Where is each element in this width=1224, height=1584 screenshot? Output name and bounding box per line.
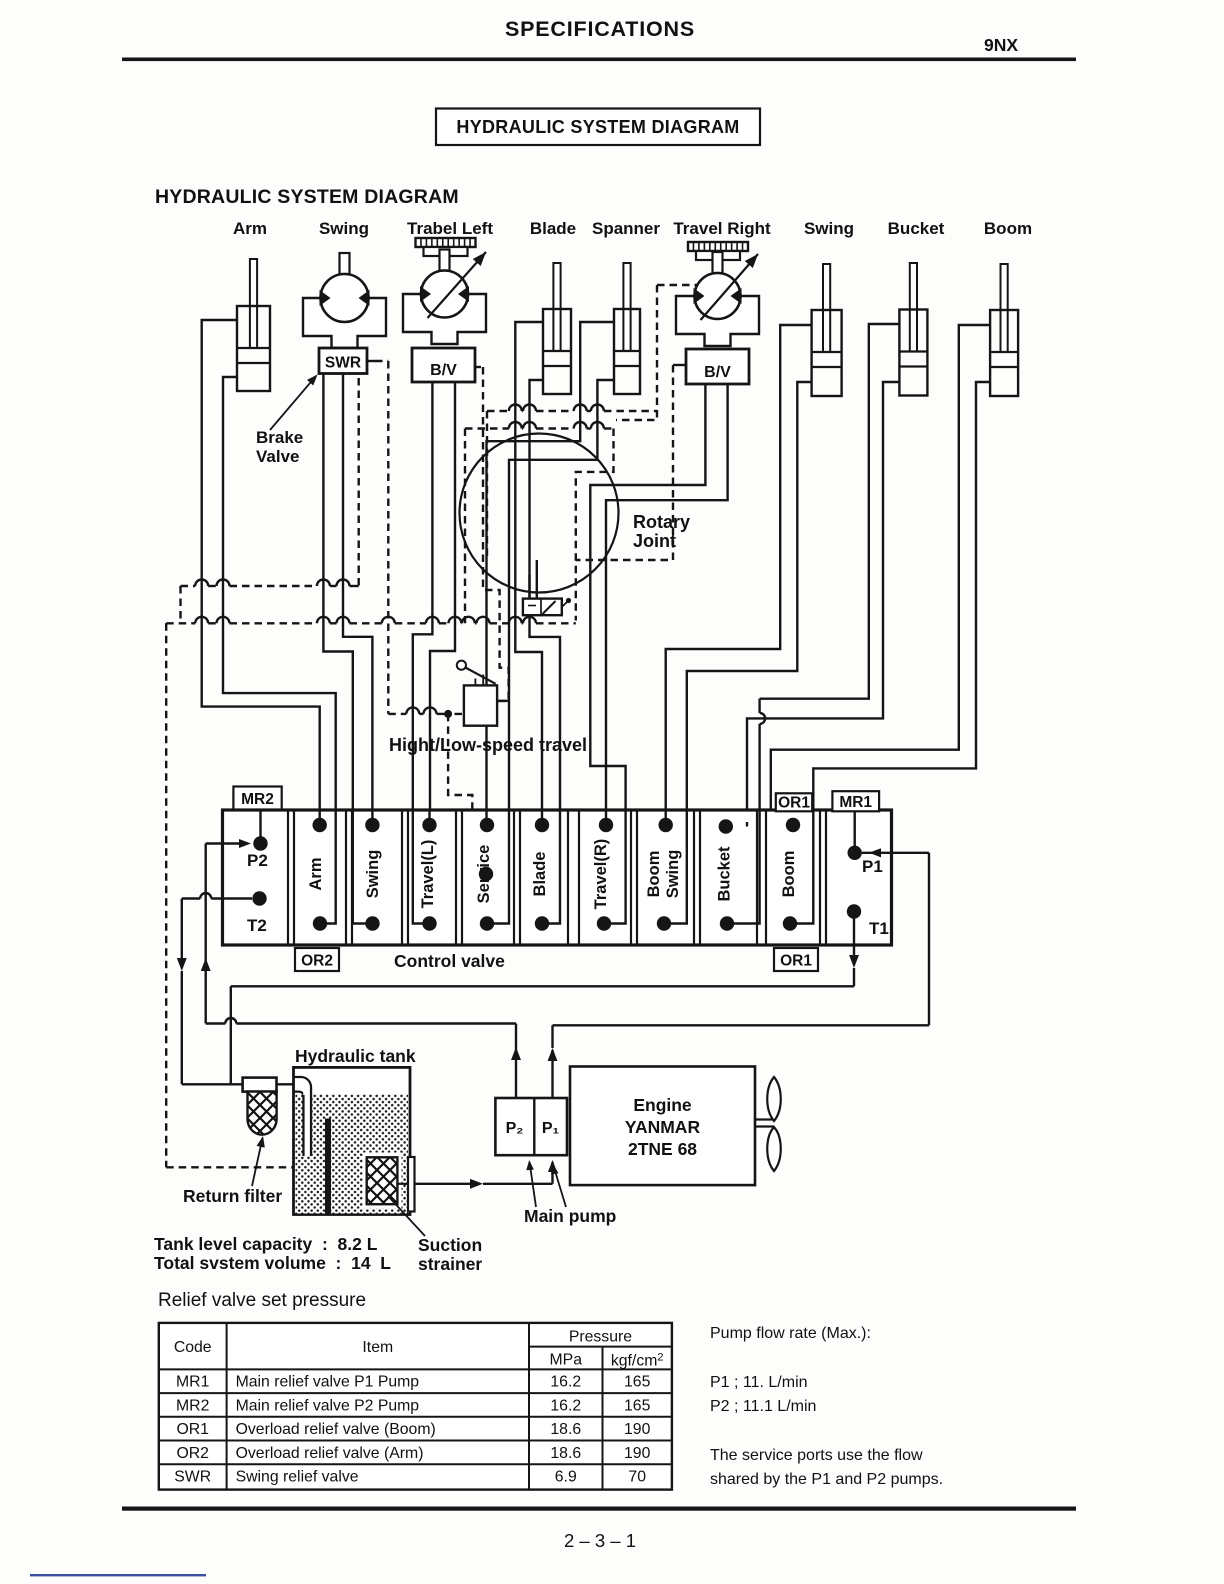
svg-text:Boom: Boom <box>645 851 663 898</box>
wire high/low valve right stub <box>497 700 509 702</box>
label tag OR1 bottom <box>774 948 818 971</box>
svg-text:Spanner: Spanner <box>592 219 660 238</box>
valve travel speed selector in rotary joint <box>523 599 562 616</box>
port service mid dot <box>479 867 493 881</box>
svg-text:Engine: Engine <box>633 1095 692 1115</box>
motor Travel Left <box>403 248 490 344</box>
control valve section P1T1 <box>826 810 892 945</box>
track pad Trabel Left <box>416 238 476 270</box>
dashed pilot drop A <box>486 411 488 560</box>
svg-text:Rotary: Rotary <box>633 512 690 532</box>
wire swing cylinder A to valve Boom Swing top <box>666 325 812 822</box>
dashed pilot bus horizontal <box>166 622 195 624</box>
wire P1 pump line <box>551 1050 553 1098</box>
svg-text:P2 ; 11.1 L/min: P2 ; 11.1 L/min <box>710 1398 816 1415</box>
control valve section TravelL <box>408 810 456 945</box>
hydraulic tank <box>294 1067 411 1214</box>
svg-text:Valve: Valve <box>256 447 300 466</box>
svg-text:MR1: MR1 <box>176 1374 210 1391</box>
leader main pump lines <box>530 1162 537 1207</box>
cylinder Blade <box>543 263 571 394</box>
svg-text:2 – 3 – 1: 2 – 3 – 1 <box>564 1530 636 1551</box>
suction strainer <box>363 1153 402 1209</box>
svg-text:Swing: Swing <box>804 219 854 238</box>
wire SWR left to valve Swing bottom <box>323 374 352 812</box>
svg-text:165: 165 <box>624 1374 651 1391</box>
svg-text:OR1: OR1 <box>176 1421 209 1438</box>
wire blade cylinder B to valve Blade bottom <box>530 380 561 812</box>
svg-text:kgf/cm2: kgf/cm2 <box>611 1352 664 1370</box>
wire bucket cylinder A to valve Bucket bottom <box>760 324 900 699</box>
port dots control valve top <box>313 818 327 832</box>
leader suction strainer <box>388 1196 425 1236</box>
valve high/low speed travel <box>464 685 497 725</box>
svg-text:Overload relief valve (Arm): Overload relief valve (Arm) <box>236 1445 424 1462</box>
svg-text:Bucket: Bucket <box>888 219 945 238</box>
wire T1 return bus <box>231 985 854 987</box>
svg-text:HYDRAULIC SYSTEM DIAGRAM: HYDRAULIC SYSTEM DIAGRAM <box>456 117 739 137</box>
wire bucket cylinder B to valve Bucket top <box>747 382 899 822</box>
svg-text:Relief valve set pressure: Relief valve set pressure <box>158 1290 366 1311</box>
wire SWR right to valve Swing top <box>343 374 372 812</box>
control valve section Bucket <box>700 810 757 945</box>
svg-text:Travel(R): Travel(R) <box>592 839 610 910</box>
port dots control valve bottom and internal wires <box>313 916 327 930</box>
label tag MR2 <box>233 787 281 810</box>
svg-text:6.9: 6.9 <box>555 1469 577 1486</box>
track pad Travel Right <box>688 242 748 274</box>
svg-text:T2: T2 <box>247 916 267 935</box>
svg-text:Travel(L): Travel(L) <box>419 840 437 909</box>
svg-text:Arm: Arm <box>233 219 267 238</box>
svg-text:Suction: Suction <box>418 1235 482 1255</box>
label tag OR2 bottom <box>295 948 339 971</box>
dashed travel right pilot box <box>616 285 657 420</box>
cylinder Swing <box>812 264 842 396</box>
cylinder Bucket <box>899 263 927 396</box>
wire blade cylinder A to valve Blade top <box>515 322 543 812</box>
svg-text:OR1: OR1 <box>778 795 810 812</box>
dashed wavy to high/low valve <box>388 713 406 715</box>
svg-text:Blade: Blade <box>530 219 576 238</box>
wire T2 return drop <box>181 899 183 959</box>
svg-text:Code: Code <box>174 1339 212 1356</box>
wire arm cylinder A to valve Arm top <box>202 320 320 812</box>
dashed pilot wavy A upper <box>487 410 509 412</box>
valve B/V travel left brake <box>412 348 475 382</box>
svg-text:Arm: Arm <box>307 857 325 890</box>
scan artifact blue line <box>30 1574 206 1576</box>
svg-text:Total svstem volume : 14 L: Total svstem volume : 14 L <box>154 1253 391 1273</box>
return filter <box>243 1078 277 1092</box>
svg-text:MR1: MR1 <box>839 794 872 811</box>
svg-text:16.2: 16.2 <box>550 1397 581 1414</box>
svg-text:Swing: Swing <box>664 850 682 899</box>
svg-text:Return filter: Return filter <box>183 1186 282 1206</box>
dashed pilot SWR drop to upper-left line <box>358 378 360 586</box>
wire P2 pump line <box>206 1022 226 1024</box>
table relief valve pressures <box>159 1323 672 1490</box>
wire boom cylinder A to valve Boom top <box>771 325 990 829</box>
engine fan <box>755 1118 774 1120</box>
cylinder Boom <box>990 264 1018 396</box>
svg-text:strainer: strainer <box>418 1254 482 1274</box>
port T1 with return drop <box>847 904 861 918</box>
leader brake valve arrow <box>270 376 316 430</box>
wire travel right B/V left to valve Travel(R) <box>590 385 705 812</box>
svg-text:SPECIFICATIONS: SPECIFICATIONS <box>505 17 695 41</box>
header rule <box>122 58 1076 62</box>
wire B/V right to valve Travel(L) bottom <box>430 383 455 812</box>
wire return to filter <box>182 1083 243 1085</box>
svg-text:2TNE 68: 2TNE 68 <box>628 1139 697 1159</box>
port T2 with return wire <box>252 891 266 905</box>
svg-text:18.6: 18.6 <box>550 1445 581 1462</box>
svg-text:Swing relief valve: Swing relief valve <box>236 1469 359 1486</box>
svg-text:MR2: MR2 <box>176 1397 209 1414</box>
leader return filter <box>252 1138 263 1186</box>
wire bucket top port elbow <box>726 825 747 827</box>
svg-text:Travel Right: Travel Right <box>673 219 771 238</box>
svg-text:Main pump: Main pump <box>524 1206 616 1226</box>
svg-text:Trabel Left: Trabel Left <box>407 219 493 238</box>
svg-text:P₂: P₂ <box>506 1120 524 1137</box>
control valve section Swing <box>352 810 402 945</box>
control valve section Blade <box>520 810 568 945</box>
svg-text:shared by the P1 and P2 pumps.: shared by the P1 and P2 pumps. <box>710 1471 943 1488</box>
svg-text:Joint: Joint <box>633 531 676 551</box>
control valve section Service <box>462 810 514 945</box>
svg-text:MR2: MR2 <box>241 791 274 808</box>
svg-text:SWR: SWR <box>174 1469 211 1486</box>
wire suction line <box>415 1183 471 1185</box>
control valve outer box <box>223 810 892 945</box>
dashed pilot SWR brake line to travel select <box>367 360 375 362</box>
svg-text:18.6: 18.6 <box>550 1421 581 1438</box>
svg-text:190: 190 <box>624 1445 651 1462</box>
svg-text:HYDRAULIC SYSTEM DIAGRAM: HYDRAULIC SYSTEM DIAGRAM <box>155 186 459 208</box>
svg-text:P1: P1 <box>862 857 883 876</box>
svg-text:Main relief valve P2 Pump: Main relief valve P2 Pump <box>236 1397 420 1414</box>
svg-text:Boom: Boom <box>984 219 1032 238</box>
wire stubs into selector valve <box>528 575 530 600</box>
svg-text:Pressure: Pressure <box>569 1329 632 1346</box>
svg-text:OR2: OR2 <box>176 1445 208 1462</box>
control valve section P2T2 <box>223 810 289 945</box>
wire spanner cylinder B to valve Service bottom <box>509 380 614 812</box>
port P1 with supply arrow <box>848 846 862 860</box>
dashed pilot loop right of rotary joint <box>576 429 614 621</box>
svg-text:Item: Item <box>362 1339 393 1356</box>
svg-text:OR2: OR2 <box>301 953 333 970</box>
boxed title HYDRAULIC SYSTEM DIAGRAM <box>436 109 760 146</box>
dashed pilot from travel-L B/V to high/low valve <box>475 366 483 368</box>
svg-text:B/V: B/V <box>704 364 731 381</box>
svg-text:P1 ; 11. L/min: P1 ; 11. L/min <box>710 1374 808 1391</box>
label tag MR1 <box>832 791 879 811</box>
motor Travel Right <box>676 251 762 346</box>
wire travel right B/V left stub <box>673 364 686 366</box>
svg-text:Hydraulic tank: Hydraulic tank <box>295 1046 416 1066</box>
wire filter to tank <box>277 1083 295 1085</box>
tank level gauge bar <box>325 1119 331 1215</box>
svg-text:Hight/Low-speed travel: Hight/Low-speed travel <box>389 735 587 755</box>
port P2 with supply arrow <box>253 836 267 850</box>
svg-text:Swing: Swing <box>319 219 369 238</box>
svg-text:Tank level capacity : 8.2 L: Tank level capacity : 8.2 L <box>154 1234 378 1254</box>
svg-text:Main relief valve P1 Pump: Main relief valve P1 Pump <box>236 1374 420 1391</box>
wire spanner cylinder A to valve Service <box>487 322 615 812</box>
engine box <box>570 1067 755 1186</box>
valve B/V travel right brake <box>686 349 749 384</box>
svg-text:T1: T1 <box>869 919 889 938</box>
cylinder Spanner <box>614 263 640 394</box>
svg-text:9NX: 9NX <box>984 35 1018 55</box>
svg-text:Overload relief valve (Boom): Overload relief valve (Boom) <box>236 1421 436 1438</box>
svg-text:190: 190 <box>624 1421 651 1438</box>
dashed pilot left drop to tank <box>165 623 167 1167</box>
cylinder Arm <box>237 259 270 391</box>
svg-text:Bucket: Bucket <box>716 846 734 902</box>
motor Swing with brake <box>303 253 386 348</box>
svg-text:MPa: MPa <box>550 1352 583 1369</box>
svg-text:B/V: B/V <box>430 362 457 379</box>
control valve section BoomSwing <box>637 810 694 945</box>
svg-text:16.2: 16.2 <box>550 1374 581 1391</box>
control valve section TravelR <box>579 810 631 945</box>
svg-text:Pump flow rate (Max.):: Pump flow rate (Max.): <box>710 1325 871 1342</box>
wire boom cylinder B to valve Boom bottom <box>813 382 990 812</box>
wire P2 supply riser <box>204 844 206 959</box>
svg-text:70: 70 <box>628 1469 646 1486</box>
lever of high/low valve <box>457 661 466 670</box>
dashed pilot wavy B lower <box>465 427 509 429</box>
main pump box <box>495 1098 567 1155</box>
suction pipe bracket <box>408 1157 415 1212</box>
svg-text:Boom: Boom <box>780 851 798 898</box>
control valve section Arm <box>294 810 346 945</box>
dashed pilot drop to service port <box>448 714 472 868</box>
wire swing cylinder B to valve Boom Swing bottom <box>687 382 812 812</box>
svg-text:SWR: SWR <box>325 355 361 372</box>
wire stubs valve top ports <box>319 810 321 825</box>
control valve section Boom <box>766 810 820 945</box>
wire arm cylinder B to valve Arm bottom <box>223 377 336 812</box>
svg-text:Swing: Swing <box>364 850 382 899</box>
svg-text:P2: P2 <box>247 851 268 870</box>
rotary joint circle <box>460 434 619 593</box>
svg-text:YANMAR: YANMAR <box>625 1117 701 1137</box>
dashed pilot drop B to bus <box>464 429 466 624</box>
svg-text:The service ports use the flow: The service ports use the flow <box>710 1447 923 1464</box>
svg-text:Control valve: Control valve <box>394 951 505 971</box>
svg-text:165: 165 <box>624 1397 651 1414</box>
tank return pipe <box>294 1077 311 1156</box>
label tag OR1 top <box>776 793 812 811</box>
svg-text:OR1: OR1 <box>780 953 812 970</box>
footer rule <box>122 1507 1076 1511</box>
dashed travel right B/V pilot drop <box>576 365 673 560</box>
svg-text:P₁: P₁ <box>542 1120 560 1137</box>
wire B/V left to valve Travel(L) <box>413 383 433 812</box>
valve SWR swing relief <box>319 348 367 374</box>
svg-text:Brake: Brake <box>256 428 303 447</box>
wire P1 riser to valve <box>928 853 930 1026</box>
dashed pilot line upper-left horizontal <box>181 585 196 587</box>
wire travel right B/V right to valve Travel(R) top <box>606 385 728 812</box>
svg-text:Blade: Blade <box>531 852 549 897</box>
